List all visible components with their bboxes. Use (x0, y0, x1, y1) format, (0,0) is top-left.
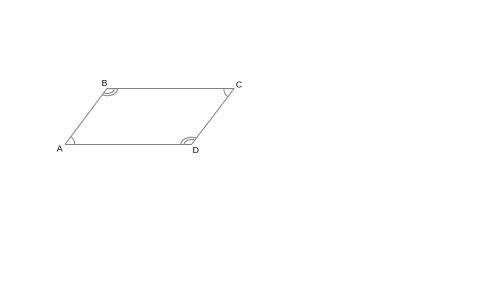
angle arc at A (71, 137, 75, 145)
angle arc at C (224, 89, 228, 97)
angle inner arc at B (104, 89, 115, 94)
side BC (107, 88, 234, 90)
side CD (192, 89, 235, 145)
svg-text:A: A (57, 143, 63, 153)
svg-text:C: C (236, 79, 242, 89)
angle inner arc at D (184, 139, 195, 144)
side DA (65, 144, 192, 146)
side AB (65, 89, 107, 145)
angle outer arc at B (102, 89, 118, 96)
svg-text:D: D (193, 145, 199, 155)
svg-text:B: B (102, 78, 108, 88)
angle outer arc at D (181, 137, 197, 144)
